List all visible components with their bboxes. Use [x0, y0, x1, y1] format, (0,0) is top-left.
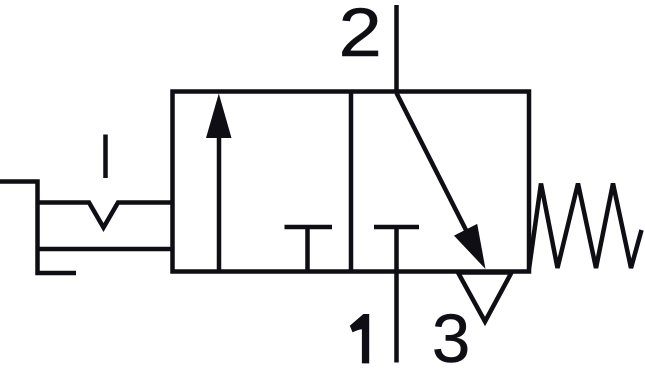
- blocked port T (left square): stem: [305, 227, 310, 272]
- blocked port T bar (right square, port 1): [374, 225, 419, 230]
- port 2 line: [394, 5, 399, 93]
- valve body: two-position envelope rectangle: [173, 92, 530, 272]
- return spring: [529, 184, 642, 270]
- lever upper line with detent notch: [38, 203, 173, 228]
- detent tick mark: [103, 135, 108, 179]
- port 1 line / blocked port stem (right square): [394, 227, 399, 363]
- flow arrow shaft (left square, 1 to 2): [217, 137, 222, 272]
- arrowhead (right square, down-right): [454, 224, 486, 269]
- position divider line: [349, 92, 354, 272]
- svg-text:3: 3: [432, 300, 470, 377]
- exhaust triangle port 3: [458, 273, 512, 322]
- lever lower line: [38, 247, 173, 252]
- blocked port T (left square, port 3): bar: [285, 225, 333, 230]
- arrowhead (left square, up): [206, 94, 232, 139]
- svg-text:2: 2: [339, 0, 382, 71]
- port label 1: [350, 314, 369, 363]
- flow arrow shaft diagonal (right square, 2 to 3): [397, 93, 468, 232]
- lever arm bracket (manual actuator): [0, 182, 76, 274]
